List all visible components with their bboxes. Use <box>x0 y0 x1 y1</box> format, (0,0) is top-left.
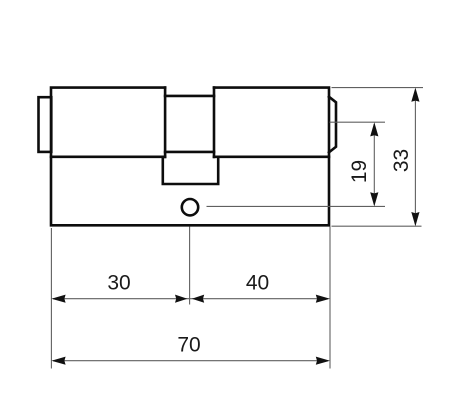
svg-text:33: 33 <box>390 149 413 172</box>
arrowhead 30 left <box>51 295 65 303</box>
notch bottom edge <box>165 151 214 154</box>
extension line 19 top <box>330 121 386 123</box>
svg-text:30: 30 <box>107 272 130 295</box>
body split line right segment <box>214 156 329 159</box>
dimension line 70 <box>53 360 328 362</box>
arrowhead 33 up <box>411 88 419 102</box>
left tab <box>39 97 52 152</box>
arrowhead 40 right <box>316 295 330 303</box>
extension line 19 bottom (from circle) <box>207 205 386 207</box>
arrowhead 33 down <box>411 212 419 226</box>
arrowhead 40 left <box>192 295 204 303</box>
body split line left segment <box>51 156 165 159</box>
arrowhead 19 up <box>370 122 378 136</box>
dimension line 33 <box>414 90 416 225</box>
dimension line 30-40 <box>53 298 328 300</box>
cam box <box>163 157 218 184</box>
extension line middle (30/40) <box>189 227 191 305</box>
arrowhead 30 right <box>175 295 187 303</box>
arrowhead 70 right <box>316 357 330 365</box>
svg-text:40: 40 <box>246 272 269 295</box>
arrowhead 70 left <box>51 357 65 365</box>
notch left vertical <box>164 88 167 157</box>
right tab <box>329 97 336 153</box>
cylinder body outer outline <box>51 88 329 226</box>
notch right vertical <box>213 88 216 157</box>
svg-text:70: 70 <box>177 334 200 357</box>
extension line 33 bottom <box>332 225 422 227</box>
extension line left (30/70) <box>50 228 52 369</box>
extension line 33 top <box>332 87 424 89</box>
arrowhead 19 down <box>370 192 378 206</box>
dimension line 19 <box>373 124 375 205</box>
svg-text:19: 19 <box>348 160 371 183</box>
extension line right (40/70) <box>329 227 331 369</box>
fixing screw hole circle <box>182 199 198 215</box>
notch top edge <box>165 95 214 98</box>
